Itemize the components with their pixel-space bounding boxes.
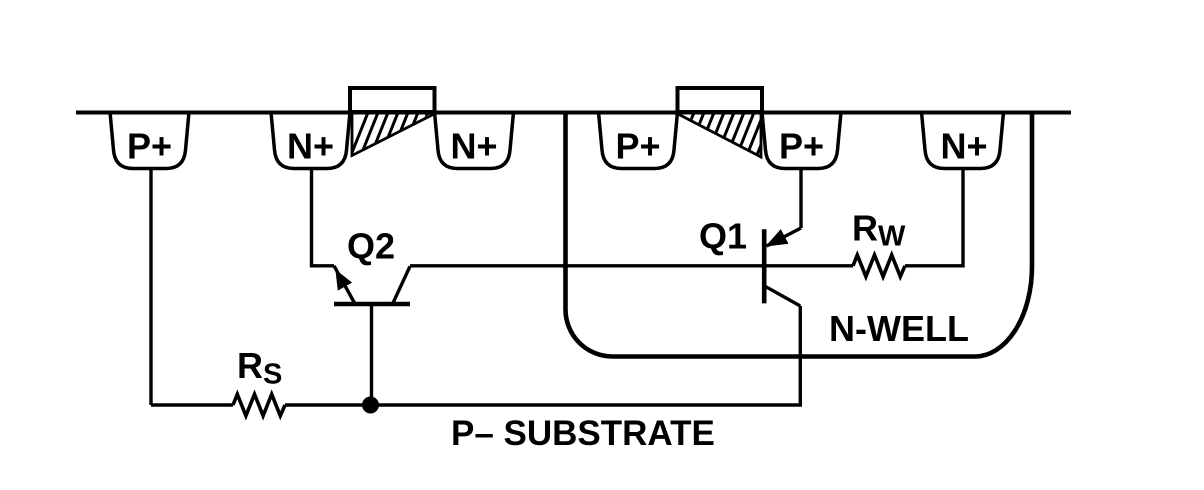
wire: bottom rail middle (RS to junction) xyxy=(285,403,371,406)
transistor Q2 (NPN) xyxy=(334,226,410,406)
wire: P+ tap down to bottom rail xyxy=(149,169,152,406)
svg-text:Q2: Q2 xyxy=(347,226,395,267)
Q1 base bar xyxy=(762,229,767,303)
Q2 emitter arrow xyxy=(336,271,351,290)
Q1 emitter diagonal xyxy=(767,228,802,246)
svg-text:N+: N+ xyxy=(450,126,497,167)
wire: RW to well tap xyxy=(905,169,963,266)
Q2 collector diagonal xyxy=(393,266,410,303)
Q2 base bar xyxy=(334,302,410,307)
svg-text:N+: N+ xyxy=(287,126,334,167)
Q1 collector diagonal xyxy=(765,286,800,306)
P+ diffusion (Q1 emitter) xyxy=(762,112,841,169)
Q1 emitter arrow xyxy=(767,230,788,246)
PMOS channel hatched wedge xyxy=(675,110,775,160)
surface line (silicon top) xyxy=(76,111,1071,115)
resistor RW xyxy=(853,255,905,277)
N-well boundary xyxy=(565,112,1032,357)
transistor Q1 (PNP) xyxy=(699,216,801,307)
wire: P+ (Q1 emitter) down xyxy=(799,169,802,229)
wire: bottom rail right segment (junction to Q1 collector corner) xyxy=(371,306,801,405)
svg-text:Q1: Q1 xyxy=(699,216,747,257)
Q2 emitter diagonal xyxy=(334,266,355,303)
wire: Q2 collector to Q1 base and RW (horizontal) xyxy=(410,264,853,267)
svg-text:N+: N+ xyxy=(940,126,987,167)
N+ diffusion (Q2 emitter) xyxy=(271,112,350,169)
junction dot (substrate node) xyxy=(362,397,379,414)
wire: bottom rail left segment (to RS) xyxy=(151,403,233,406)
svg-text:N-WELL: N-WELL xyxy=(829,308,969,349)
resistor RS xyxy=(233,394,285,416)
svg-text:P+: P+ xyxy=(779,126,824,167)
N+ diffusion (well tap, right) xyxy=(922,112,1004,169)
P+ diffusion (PMOS drain) xyxy=(599,112,678,169)
svg-text:P+: P+ xyxy=(127,126,172,167)
P+ diffusion (substrate tap, left) xyxy=(110,112,189,169)
NMOS gate xyxy=(350,88,435,112)
Q2 base drop wire xyxy=(370,305,373,406)
wire: N+ (Q2 emitter) down xyxy=(312,169,335,266)
svg-text:P+: P+ xyxy=(615,126,660,167)
svg-text:P– SUBSTRATE: P– SUBSTRATE xyxy=(451,414,715,453)
N+ diffusion (NMOS drain) xyxy=(435,112,514,169)
PMOS gate xyxy=(678,88,763,112)
NMOS channel hatched wedge xyxy=(349,110,449,160)
